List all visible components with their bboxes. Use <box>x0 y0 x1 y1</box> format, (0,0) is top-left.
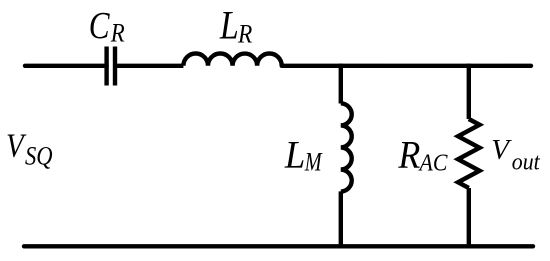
wire: bottom return <box>24 244 533 248</box>
label V_SQ (input source) <box>6 126 53 171</box>
svg-text:L: L <box>284 133 305 176</box>
svg-text:M: M <box>304 148 323 177</box>
label R_AC <box>397 134 448 177</box>
label L_R <box>219 4 252 49</box>
inductor L_M top lead wire <box>339 64 343 104</box>
svg-text:R: R <box>110 19 125 48</box>
label V_out <box>491 134 540 175</box>
wire: top segment between C_R and L_R <box>115 64 183 68</box>
inductor L_R (series, 4 arcs) <box>183 54 281 66</box>
capacitor C_R (two plates) <box>107 47 115 86</box>
svg-text:C: C <box>89 4 111 47</box>
label L_M <box>284 133 323 177</box>
svg-text:SQ: SQ <box>25 142 53 171</box>
inductor L_M (shunt, 4 arcs) <box>341 103 352 191</box>
svg-text:V: V <box>491 134 512 166</box>
resistor R_AC bottom lead wire <box>467 188 471 249</box>
svg-text:R: R <box>397 134 420 177</box>
label C_R <box>89 4 125 48</box>
svg-text:AC: AC <box>418 149 448 175</box>
resistor R_AC (zigzag) <box>458 119 480 188</box>
svg-text:out: out <box>512 149 540 175</box>
svg-text:R: R <box>237 21 252 49</box>
wire: top-left segment (source to C_R) <box>25 64 107 68</box>
svg-text:V: V <box>6 126 27 164</box>
wire: top-right segment (L_R to output) <box>282 64 531 68</box>
inductor L_M bottom lead wire <box>339 191 343 248</box>
svg-text:L: L <box>219 4 239 48</box>
resistor R_AC top lead wire <box>467 64 471 119</box>
